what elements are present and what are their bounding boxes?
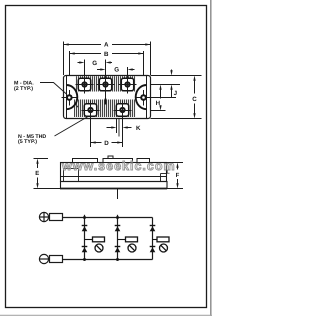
- mounting hole right: [136, 85, 176, 109]
- svg-text:A: A: [104, 42, 109, 49]
- left step: [63, 169, 65, 182]
- terminal squares top row: [78, 78, 133, 116]
- svg-text:F: F: [176, 172, 180, 179]
- body inner edge right: [146, 76, 148, 118]
- border frame: [6, 6, 207, 308]
- dim G2: [97, 69, 102, 71]
- centerline T2: [105, 60, 107, 99]
- dim A: [63, 42, 65, 76]
- DC+ terminal lug: [50, 214, 63, 221]
- diode D5 (branch 3 upper): [150, 225, 156, 227]
- wire: branch 1: [84, 215, 86, 260]
- dim J: [171, 70, 173, 73]
- ear arc right: [136, 85, 147, 109]
- svg-text:www.seekic.com: www.seekic.com: [61, 159, 176, 173]
- dim F: [167, 163, 184, 189]
- centerline B1 down to D: [90, 101, 92, 148]
- leader N: [55, 117, 89, 137]
- terminal crosshairs: [76, 60, 137, 148]
- label N-M5: [18, 134, 46, 145]
- terminal discs: [81, 81, 130, 113]
- centerline T1: [84, 60, 86, 94]
- label M-DIA: [14, 81, 34, 92]
- DC- terminal lug: [50, 256, 63, 263]
- DC+ terminal symbol: [39, 212, 48, 221]
- dim B: [69, 51, 71, 75]
- body inner edge left: [66, 76, 68, 118]
- dim H: [160, 88, 162, 99]
- diode D6 (branch 3 lower): [150, 246, 156, 248]
- diodes and gates: [82, 226, 169, 253]
- diode D3 (branch 2 upper): [115, 225, 121, 227]
- dim E: [34, 159, 61, 189]
- link line below side view: [117, 189, 119, 200]
- diode D1 (branch 1 upper): [82, 225, 88, 227]
- ext lines: [151, 75, 202, 77]
- terminal T3 square: [121, 78, 133, 90]
- AC phase terminal AC1 (lug and slashed-circle): [85, 239, 93, 241]
- svg-text:K: K: [136, 125, 141, 132]
- dim C: [194, 79, 196, 94]
- terminal B2 square: [116, 104, 128, 116]
- centerline B2 down to D: [122, 101, 124, 148]
- svg-text:G: G: [114, 66, 119, 73]
- wire: DC+ bus: [63, 217, 153, 219]
- wire: branch 2: [117, 215, 119, 260]
- scan edge bottom: [0, 314, 212, 316]
- terminal blocks on top of side view: [73, 156, 150, 163]
- diode D4 (branch 2 lower): [115, 246, 121, 248]
- hatch band bottom: [74, 100, 136, 118]
- svg-text:E: E: [35, 170, 39, 177]
- housing: [61, 163, 167, 182]
- terminal B1 square: [84, 104, 96, 116]
- module body: [64, 76, 151, 119]
- wire: DC- bus: [63, 259, 153, 261]
- junction: branch 2 / DC+ bus: [116, 216, 119, 219]
- terminal T1 square: [78, 78, 90, 90]
- svg-text:D: D: [104, 140, 109, 147]
- side labels: [35, 169, 179, 179]
- housing inner line: [61, 176, 167, 178]
- junction: branch 2 / DC- bus: [116, 258, 119, 261]
- ear arc left: [67, 85, 78, 109]
- svg-text:(2 TYP.): (2 TYP.): [14, 86, 33, 92]
- svg-text:G: G: [92, 60, 97, 67]
- scan edge right: [210, 0, 212, 316]
- DC- terminal symbol: [39, 254, 48, 263]
- junction: branch 1 / DC- bus: [83, 258, 86, 261]
- svg-text:B: B: [104, 51, 109, 58]
- diode D2 (branch 1 lower): [82, 246, 88, 248]
- mounting hole left: [62, 85, 78, 109]
- svg-text:C: C: [192, 96, 197, 103]
- L bracket: [161, 173, 167, 175]
- dim G1: [78, 62, 82, 64]
- junction: branch 1 / DC+ bus: [83, 216, 86, 219]
- leader M: [40, 83, 67, 95]
- wire: branch 3: [152, 218, 154, 260]
- svg-text:H: H: [156, 100, 161, 107]
- labels top view: [92, 42, 197, 148]
- mold dot: [76, 106, 78, 108]
- baseplate: [61, 182, 168, 189]
- svg-text:J: J: [174, 90, 178, 97]
- thick center bar: [105, 99, 107, 105]
- terminal T2 square: [99, 78, 111, 90]
- hatch band top: [76, 76, 136, 91]
- svg-text:(5 TYP.): (5 TYP.): [18, 139, 37, 145]
- AC phase terminal AC3 (lug and slashed-circle): [153, 239, 158, 241]
- centerline T3: [127, 67, 129, 94]
- AC phase terminal AC2 (lug and slashed-circle): [118, 239, 126, 241]
